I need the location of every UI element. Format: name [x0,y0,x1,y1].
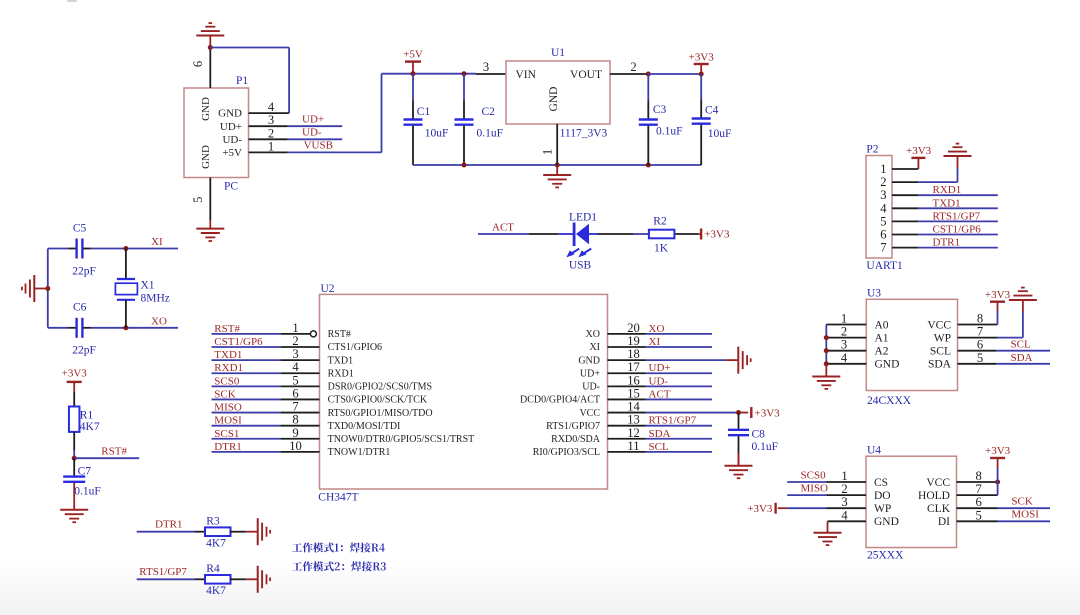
svg-text:3: 3 [841,495,847,509]
svg-text:8: 8 [975,469,981,483]
svg-text:+5V: +5V [222,147,242,159]
svg-text:UD+: UD+ [649,362,671,374]
svg-text:GND: GND [874,516,899,528]
svg-text:TNOW1/DTR1: TNOW1/DTR1 [328,447,391,458]
svg-text:UD+: UD+ [302,114,324,126]
svg-text:P2: P2 [866,144,878,156]
svg-text:22pF: 22pF [72,266,96,278]
svg-text:0.1uF: 0.1uF [74,486,101,498]
svg-text:U2: U2 [321,283,335,295]
svg-text:TNOW0/DTR0/GPIO5/SCS1/TRST: TNOW0/DTR0/GPIO5/SCS1/TRST [328,434,475,445]
svg-text:C1: C1 [417,106,431,118]
svg-text:R1: R1 [80,410,94,422]
svg-text:A0: A0 [875,319,889,331]
svg-text:+3V3: +3V3 [755,407,781,419]
svg-text:RXD1: RXD1 [214,362,243,374]
svg-text:XO: XO [649,323,665,335]
svg-text:SCS1: SCS1 [214,428,239,440]
svg-text:TXD0/MOSI/TDI: TXD0/MOSI/TDI [328,421,401,432]
svg-text:SCL: SCL [1011,339,1031,351]
svg-text:14: 14 [627,400,640,414]
svg-text:U3: U3 [867,288,881,300]
svg-text:0.1uF: 0.1uF [752,441,779,453]
svg-text:+3V3: +3V3 [985,445,1011,457]
svg-text:GND: GND [875,359,900,371]
svg-text:VCC: VCC [926,477,950,489]
svg-text:+3V3: +3V3 [62,368,88,380]
svg-text:R3: R3 [206,515,220,527]
svg-text:5: 5 [292,373,298,387]
svg-text:XI: XI [649,336,661,348]
svg-text:SDA: SDA [649,428,671,440]
svg-text:RTS0/GPIO1/MISO/TDO: RTS0/GPIO1/MISO/TDO [328,408,433,419]
svg-text:UD-: UD- [582,382,600,393]
svg-text:SCL: SCL [930,346,951,358]
svg-text:+3V3: +3V3 [689,52,715,64]
svg-text:X1: X1 [141,280,155,292]
svg-text:SCS0: SCS0 [214,375,240,387]
svg-text:MOSI: MOSI [1011,509,1039,521]
svg-text:VOUT: VOUT [570,69,602,81]
svg-text:+3V3: +3V3 [985,289,1011,301]
svg-text:UD+: UD+ [580,368,600,379]
svg-text:RXD1: RXD1 [328,368,354,379]
svg-text:4K7: 4K7 [206,585,226,597]
svg-text:TXD1: TXD1 [933,197,961,209]
svg-text:C6: C6 [73,302,87,314]
svg-text:C5: C5 [73,223,87,235]
svg-text:RST#: RST# [101,445,127,457]
svg-text:2: 2 [292,334,298,348]
svg-text:RXD1: RXD1 [933,184,962,196]
svg-text:5: 5 [191,197,205,203]
svg-text:RXD0/SDA: RXD0/SDA [551,434,601,445]
svg-text:4: 4 [841,508,848,522]
svg-text:CS: CS [874,477,888,489]
svg-text:22pF: 22pF [72,345,96,357]
svg-text:3: 3 [880,188,886,202]
svg-text:1: 1 [880,162,886,176]
svg-text:6: 6 [977,338,983,352]
svg-text:8MHz: 8MHz [141,293,170,305]
svg-text:1K: 1K [654,243,669,255]
svg-text:XI: XI [151,236,163,248]
svg-text:4: 4 [292,360,299,374]
svg-text:DTR1: DTR1 [155,518,183,530]
svg-text:U1: U1 [551,47,565,59]
svg-text:3: 3 [483,60,489,74]
svg-text:SDA: SDA [928,359,952,371]
svg-text:SDA: SDA [1011,352,1033,364]
svg-text:10uF: 10uF [708,128,732,140]
svg-text:RTS1/GP7: RTS1/GP7 [139,566,187,578]
svg-text:WP: WP [934,332,951,344]
svg-text:R2: R2 [653,215,667,227]
svg-text:17: 17 [627,360,640,374]
svg-text:TXD1: TXD1 [328,355,354,366]
svg-text:PC: PC [224,181,238,193]
svg-text:2: 2 [268,126,274,140]
svg-text:SCK: SCK [214,388,235,400]
svg-text:UART1: UART1 [866,260,903,272]
svg-text:10uF: 10uF [425,127,449,139]
svg-text:UD-: UD- [302,127,322,139]
svg-text:2: 2 [880,175,886,189]
svg-text:8: 8 [977,312,983,326]
svg-text:25XXX: 25XXX [867,550,904,562]
svg-text:6: 6 [975,495,981,509]
svg-text:UD-: UD- [222,134,242,146]
svg-text:MISO: MISO [214,402,242,414]
svg-text:0.1uF: 0.1uF [656,126,683,138]
svg-text:4: 4 [841,351,848,365]
svg-text:+5V: +5V [403,49,423,61]
svg-text:6: 6 [191,61,205,67]
svg-text:CST1/GP6: CST1/GP6 [214,336,263,348]
svg-text:24CXXX: 24CXXX [867,395,912,407]
svg-text:LED1: LED1 [569,212,597,224]
svg-text:7: 7 [977,325,983,339]
svg-text:6: 6 [880,228,886,242]
svg-text:9: 9 [292,426,298,440]
svg-text:RST#: RST# [214,323,240,335]
svg-text:+3V3: +3V3 [906,145,932,157]
svg-text:3: 3 [292,347,298,361]
svg-text:CTS0/GPIO0/SCK/TCK: CTS0/GPIO0/SCK/TCK [328,395,428,406]
svg-text:TXD1: TXD1 [214,349,242,361]
svg-text:DO: DO [874,490,891,502]
svg-text:5: 5 [977,351,983,365]
svg-text:8: 8 [292,413,298,427]
svg-text:18: 18 [627,347,640,361]
svg-text:10: 10 [289,439,302,453]
svg-text:R4: R4 [206,563,220,575]
svg-text:DCD0/GPIO4/ACT: DCD0/GPIO4/ACT [520,395,600,406]
svg-text:1: 1 [292,321,298,335]
svg-text:HOLD: HOLD [918,490,950,502]
svg-text:RI0/GPIO3/SCL: RI0/GPIO3/SCL [533,447,600,458]
svg-text:A2: A2 [875,346,889,358]
svg-text:0.1uF: 0.1uF [477,127,504,139]
svg-text:16: 16 [627,373,640,387]
svg-text:7: 7 [975,482,981,496]
svg-text:2: 2 [630,60,636,74]
svg-text:6: 6 [292,386,298,400]
svg-text:GND: GND [578,355,600,366]
svg-text:ACT: ACT [492,221,514,233]
svg-text:GND: GND [200,145,212,169]
svg-text:4K7: 4K7 [206,537,226,549]
svg-text:C4: C4 [705,105,719,117]
svg-text:4K7: 4K7 [80,421,100,433]
svg-text:13: 13 [627,413,640,427]
svg-text:2: 2 [841,482,847,496]
svg-text:U4: U4 [867,445,881,457]
svg-text:GND: GND [548,87,560,112]
svg-text:MOSI: MOSI [214,415,242,427]
svg-text:DSR0/GPIO2/SCS0/TMS: DSR0/GPIO2/SCS0/TMS [328,382,432,393]
svg-text:2: 2 [841,325,847,339]
svg-text:A1: A1 [875,332,889,344]
svg-text:ACT: ACT [649,388,671,400]
svg-text:CH347T: CH347T [318,492,358,504]
svg-text:VIN: VIN [516,69,537,81]
svg-text:P1: P1 [236,75,248,87]
svg-text:UD-: UD- [649,375,669,387]
svg-text:CST1/GP6: CST1/GP6 [933,224,982,236]
svg-text:4: 4 [880,201,887,215]
svg-text:CTS1/GPIO6: CTS1/GPIO6 [328,342,382,353]
svg-text:RTS1/GPIO7: RTS1/GPIO7 [546,421,600,432]
svg-text:7: 7 [880,241,886,255]
svg-text:RTS1/GP7: RTS1/GP7 [649,415,697,427]
svg-text:3: 3 [268,113,274,127]
svg-text:VCC: VCC [579,408,600,419]
svg-text:GND: GND [218,108,242,120]
svg-text:RTS1/GP7: RTS1/GP7 [933,210,981,222]
svg-text:C8: C8 [752,429,766,441]
svg-text:CLK: CLK [927,503,951,515]
svg-text:1: 1 [268,139,274,153]
svg-text:1: 1 [841,312,847,326]
svg-text:VCC: VCC [927,319,951,331]
svg-text:DI: DI [938,516,950,528]
svg-text:XO: XO [586,329,600,340]
svg-text:15: 15 [627,386,640,400]
svg-text:USB: USB [569,260,592,272]
svg-text:WP: WP [874,503,891,515]
svg-text:+3V3: +3V3 [747,503,773,515]
svg-text:12: 12 [627,426,640,440]
svg-text:+3V3: +3V3 [704,229,730,241]
svg-text:1117_3V3: 1117_3V3 [560,128,608,140]
svg-text:11: 11 [627,439,639,453]
svg-text:UD+: UD+ [220,121,242,133]
svg-text:3: 3 [841,338,847,352]
svg-text:XI: XI [589,342,600,353]
svg-text:C3: C3 [653,104,667,116]
svg-text:7: 7 [292,400,298,414]
svg-text:19: 19 [627,334,640,348]
svg-text:5: 5 [880,214,886,228]
svg-text:C2: C2 [482,106,496,118]
svg-text:SCS0: SCS0 [801,469,827,481]
svg-text:1: 1 [541,149,555,155]
svg-text:4: 4 [268,100,275,114]
svg-text:1: 1 [841,469,847,483]
svg-text:20: 20 [627,321,640,335]
svg-text:GND: GND [200,97,212,121]
svg-text:C7: C7 [78,466,92,478]
svg-text:5: 5 [975,508,981,522]
svg-text:XO: XO [151,315,167,327]
svg-text:VUSB: VUSB [304,140,333,152]
svg-text:MISO: MISO [801,482,829,494]
svg-text:DTR1: DTR1 [933,237,961,249]
svg-text:SCK: SCK [1011,496,1032,508]
svg-text:DTR1: DTR1 [214,441,242,453]
svg-text:SCL: SCL [649,441,669,453]
svg-text:RST#: RST# [328,329,351,340]
